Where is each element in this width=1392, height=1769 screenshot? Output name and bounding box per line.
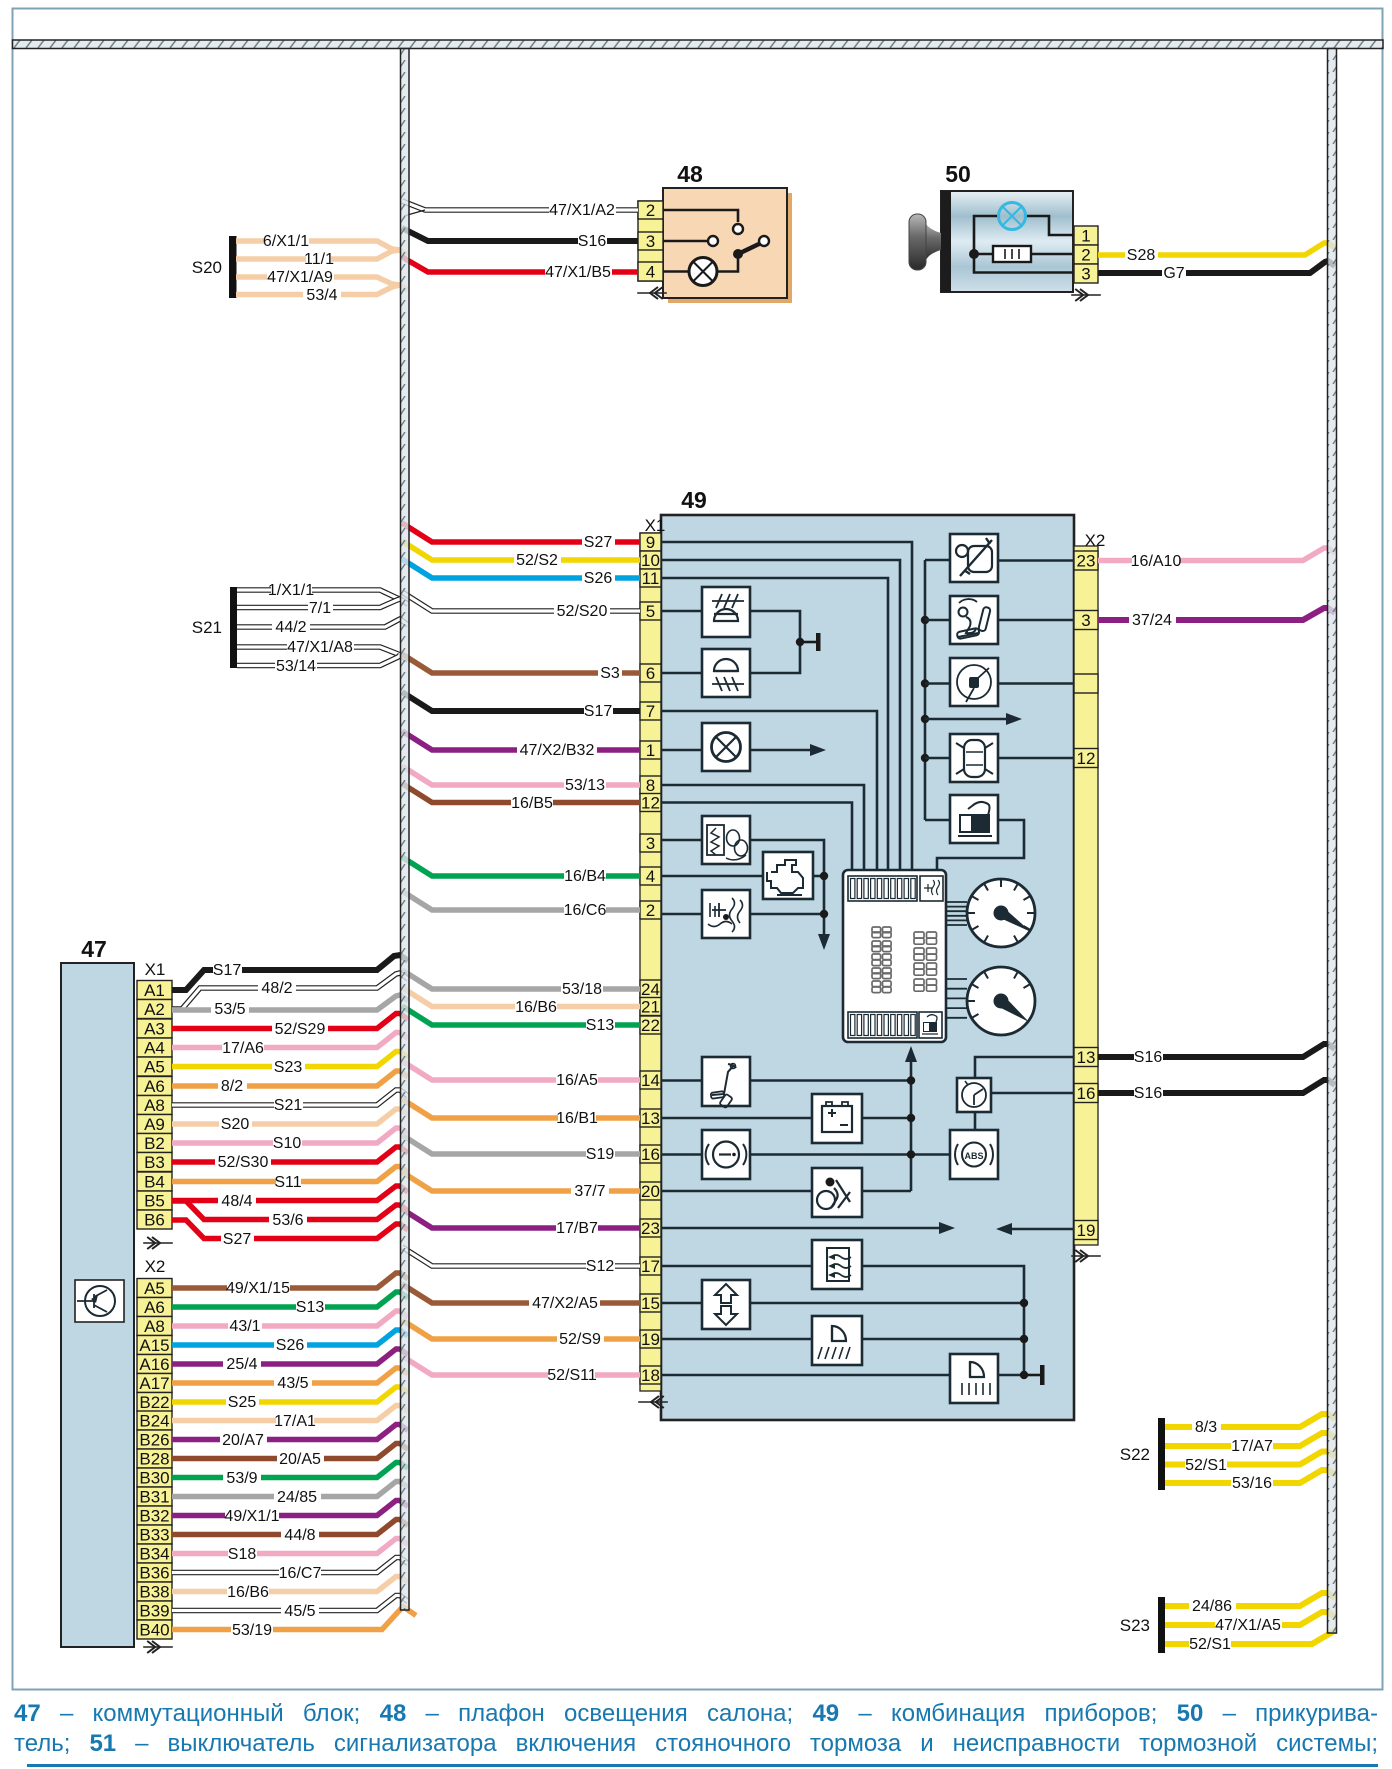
svg-text:53/18: 53/18 <box>562 981 602 998</box>
indicator: heated rear window <box>812 1240 862 1289</box>
svg-text:20/A5: 20/A5 <box>279 1451 321 1468</box>
trunk for indicator column <box>924 560 927 820</box>
wire 52/S1 (S23) <box>1165 1631 1337 1644</box>
48 internal lamp <box>689 258 717 286</box>
indicator: level updown <box>702 1280 750 1329</box>
svg-text:B3: B3 <box>144 1153 165 1172</box>
svg-text:16/B4: 16/B4 <box>564 868 606 885</box>
wire pin23 arrow <box>661 1227 941 1230</box>
svg-text:B2: B2 <box>144 1134 165 1153</box>
svg-text:S23: S23 <box>1120 1616 1150 1635</box>
svg-text:S16: S16 <box>1134 1085 1163 1102</box>
49 X1 pin 18 <box>640 1366 661 1384</box>
svg-text:3: 3 <box>1081 611 1090 630</box>
svg-text:4: 4 <box>646 263 655 282</box>
svg-text:49/X1/1: 49/X1/1 <box>224 1508 279 1525</box>
bus pin10 to display <box>661 560 900 870</box>
svg-text:11: 11 <box>642 569 660 588</box>
wire 43/5 (47) <box>172 1368 408 1383</box>
indicator: power steering <box>950 658 998 706</box>
49 X1 pin 17 <box>640 1257 661 1275</box>
49 X1 pin 2 <box>640 901 661 919</box>
49 connector X2 strip <box>1074 546 1098 1245</box>
svg-text:53/14: 53/14 <box>276 658 316 675</box>
indicator: heater plug <box>702 816 750 864</box>
svg-text:53/5: 53/5 <box>214 1001 245 1018</box>
wires display to speedometer <box>946 901 967 903</box>
svg-text:47/X1/A9: 47/X1/A9 <box>267 269 333 286</box>
svg-text:9: 9 <box>646 533 655 552</box>
wire 53/13 <box>402 766 640 785</box>
svg-text:52/S29: 52/S29 <box>275 1021 326 1038</box>
svg-text:S17: S17 <box>584 703 613 720</box>
wire lowbeam-trunk2 <box>862 1338 1024 1341</box>
svg-text:7/1: 7/1 <box>309 600 331 617</box>
svg-text:B26: B26 <box>139 1431 169 1450</box>
svg-text:B38: B38 <box>139 1583 169 1602</box>
svg-text:A5: A5 <box>144 1058 165 1077</box>
47 X2 pin A8 <box>137 1317 172 1336</box>
wire S17 <box>402 692 640 711</box>
47 X2 pin B31 <box>137 1487 172 1506</box>
svg-text:A8: A8 <box>144 1096 165 1115</box>
49 X1 pin 6 <box>640 664 661 682</box>
svg-text:S27: S27 <box>223 1231 252 1248</box>
svg-text:2: 2 <box>1081 246 1090 265</box>
svg-text:44/2: 44/2 <box>275 619 306 636</box>
wire S16 (X2-13) <box>1098 1044 1335 1057</box>
harness bar right vertical <box>1328 49 1337 1634</box>
svg-text:16/A5: 16/A5 <box>556 1072 598 1089</box>
svg-text:13: 13 <box>1077 1048 1096 1067</box>
wire S26 <box>402 559 640 578</box>
svg-text:7: 7 <box>646 702 655 721</box>
wire 44/2 <box>237 619 408 627</box>
wire G7 <box>1098 261 1335 273</box>
49 X2 pin 12 <box>1074 749 1098 768</box>
svg-text:A3: A3 <box>144 1020 165 1039</box>
49 X1 pin 9 <box>640 533 661 551</box>
wire trunk-airbag <box>921 616 929 624</box>
svg-text:52/S1: 52/S1 <box>1185 1457 1227 1474</box>
svg-text:23: 23 <box>641 1219 660 1238</box>
svg-text:B34: B34 <box>139 1545 169 1564</box>
wire pin19 <box>661 1338 812 1341</box>
svg-text:43/1: 43/1 <box>229 1318 260 1335</box>
svg-text:53/4: 53/4 <box>306 287 337 304</box>
display odometer digits <box>872 927 881 933</box>
svg-text:S3: S3 <box>600 665 620 682</box>
wire fuel loop to display <box>937 820 1024 870</box>
wire 53/9 (47) <box>172 1463 408 1478</box>
48 internal switch <box>663 210 738 222</box>
svg-text:ABS: ABS <box>964 1151 983 1161</box>
svg-text:A2: A2 <box>144 1000 165 1019</box>
47 X1 pin B2 <box>137 1134 172 1153</box>
svg-text:S16: S16 <box>1134 1049 1163 1066</box>
svg-text:S21: S21 <box>192 618 222 637</box>
svg-text:53/16: 53/16 <box>1232 1475 1272 1492</box>
indicator: airbag warning <box>812 1168 862 1217</box>
wire 52/S1 (S22) <box>1165 1452 1335 1465</box>
47 X2 pin A6 <box>137 1298 172 1317</box>
wire 53/18 <box>402 970 640 989</box>
trunk below display <box>910 1058 913 1191</box>
wire 49/X1/15 (47) <box>172 1273 408 1288</box>
splice S20 <box>229 236 237 298</box>
wire airbag to X2 pin3 <box>999 619 1074 622</box>
svg-text:52/S11: 52/S11 <box>547 1367 597 1384</box>
display bar graph top <box>848 876 917 901</box>
display unit <box>843 870 946 1042</box>
svg-text:12: 12 <box>641 794 660 813</box>
wire 53/14 <box>237 655 400 666</box>
svg-text:47/X2/A5: 47/X2/A5 <box>532 1295 598 1312</box>
svg-text:B28: B28 <box>139 1450 169 1469</box>
48 connector continuation <box>650 287 663 299</box>
svg-text:S28: S28 <box>1127 247 1156 264</box>
svg-text:10: 10 <box>641 551 660 570</box>
49 X2 pin 16 <box>1074 1084 1098 1103</box>
svg-text:1/X1/1: 1/X1/1 <box>268 582 314 599</box>
49 X1 pin 16 <box>640 1145 661 1163</box>
component 47 box <box>61 963 134 1647</box>
49 X1 pin 19 <box>640 1330 661 1348</box>
svg-text:19: 19 <box>641 1330 660 1349</box>
svg-text:X2: X2 <box>145 1257 166 1276</box>
47 X2 pin B28 <box>137 1449 172 1468</box>
wire pin17 <box>661 1265 812 1268</box>
svg-text:B36: B36 <box>139 1564 169 1583</box>
svg-text:S25: S25 <box>228 1394 257 1411</box>
wire 47/X1/A9 <box>236 277 408 290</box>
wire 47/X1/A5 (S23) <box>1165 1612 1335 1625</box>
svg-text:43/5: 43/5 <box>277 1375 308 1392</box>
49 X1 pin 20 <box>640 1182 661 1200</box>
svg-text:17/A6: 17/A6 <box>222 1040 264 1057</box>
wire 17/A7 (S22) <box>1165 1433 1335 1446</box>
wire 6/X1/1 <box>236 241 408 255</box>
wire S3 <box>402 654 640 673</box>
splice S22 <box>1158 1418 1165 1490</box>
harness bar center vertical <box>401 49 410 1611</box>
svg-text:S11: S11 <box>274 1174 301 1191</box>
49 X1 pin 5 <box>640 602 661 620</box>
wire 16/C6 <box>402 891 640 910</box>
wire S20 (47) <box>172 1109 408 1124</box>
49 X1 pin 23 <box>640 1219 661 1237</box>
svg-text:47/X1/B5: 47/X1/B5 <box>545 264 611 281</box>
display bar graph bottom <box>848 1012 917 1038</box>
svg-text:A4: A4 <box>144 1039 165 1058</box>
svg-text:53/6: 53/6 <box>272 1212 303 1229</box>
svg-text:B5: B5 <box>144 1192 165 1211</box>
wire 16/A5 <box>402 1061 640 1080</box>
50 internal resistor <box>969 249 979 259</box>
wire 24/86 (S23) <box>1165 1593 1335 1606</box>
wire engine to vertical <box>813 875 824 878</box>
svg-text:17: 17 <box>641 1257 660 1276</box>
wire X2 pin19 arrow <box>1010 1228 1074 1231</box>
wire S27 <box>402 523 640 542</box>
arrow from lamp icon <box>750 749 812 752</box>
wire 53/4 <box>236 285 400 295</box>
49 X1 pin 8 <box>640 776 661 794</box>
wire S27 (47) <box>172 1220 408 1239</box>
wire 53/5 (47) <box>172 995 408 1010</box>
svg-text:A5: A5 <box>144 1279 165 1298</box>
47 X2 pin A17 <box>137 1374 172 1393</box>
49 X1 pin 21 <box>640 998 661 1016</box>
svg-text:20/A7: 20/A7 <box>222 1432 264 1449</box>
svg-text:47/X1/A5: 47/X1/A5 <box>1215 1617 1281 1634</box>
svg-text:B22: B22 <box>139 1393 169 1412</box>
wire 11/1 <box>236 250 400 259</box>
svg-text:52/S30: 52/S30 <box>218 1154 269 1171</box>
47 X2 pin B26 <box>137 1430 172 1449</box>
svg-text:2: 2 <box>646 201 655 220</box>
svg-text:47: 47 <box>81 936 107 962</box>
wire 52/S29 (47) <box>172 1014 408 1029</box>
wire 37/24 <box>1098 608 1335 620</box>
wire 17/A1 (47) <box>172 1406 408 1421</box>
svg-text:50: 50 <box>945 161 971 187</box>
49 X1 pin 24 <box>640 980 661 998</box>
svg-text:16/B5: 16/B5 <box>511 795 553 812</box>
bus pin7 to display <box>661 711 877 870</box>
wire trunk-doors <box>921 754 929 762</box>
svg-text:B32: B32 <box>139 1507 169 1526</box>
svg-text:44/8: 44/8 <box>284 1527 315 1544</box>
svg-text:17/A7: 17/A7 <box>1231 1438 1273 1455</box>
svg-text:49/X1/15: 49/X1/15 <box>226 1280 290 1297</box>
svg-text:15: 15 <box>641 1294 660 1313</box>
wire 47/X1/B5 <box>402 257 638 272</box>
svg-text:B40: B40 <box>139 1621 169 1640</box>
wire 16/B1 <box>402 1099 640 1118</box>
svg-text:8/2: 8/2 <box>221 1078 243 1095</box>
49 X1 pin 14 <box>640 1071 661 1089</box>
svg-text:11/1: 11/1 <box>304 251 334 268</box>
wires display to tachometer <box>946 978 967 980</box>
svg-text:S20: S20 <box>192 258 222 277</box>
47 X1 pin A3 <box>137 1019 172 1038</box>
wire S17 (47) <box>172 955 408 990</box>
wire airbag2-trunk <box>862 1190 911 1193</box>
svg-text:S13: S13 <box>296 1299 325 1316</box>
svg-text:B24: B24 <box>139 1412 169 1431</box>
svg-text:16/C6: 16/C6 <box>564 902 607 919</box>
47 X1 pin A1 <box>137 981 172 1000</box>
indicator: fuel reserve <box>950 795 998 843</box>
indicator: side light lamp <box>702 723 750 771</box>
display coolant mini icon <box>920 876 943 901</box>
wire S12 <box>402 1247 640 1266</box>
svg-text:25/4: 25/4 <box>226 1356 257 1373</box>
wire S13 (47) <box>172 1292 408 1307</box>
wire 17/A6 (47) <box>172 1033 408 1048</box>
wire glow to vertical <box>750 840 824 938</box>
indicator: coolant temp <box>702 890 750 938</box>
wire brake-abs <box>750 1153 950 1156</box>
wire pin4 to engine <box>661 875 763 878</box>
svg-text:S26: S26 <box>584 570 613 587</box>
wire S13 <box>402 1006 640 1025</box>
wire 16/B5 <box>402 784 640 803</box>
indicator: low beam <box>812 1316 862 1365</box>
wire to X2 pin13 <box>975 1057 1074 1078</box>
wire 7/1 <box>237 599 400 608</box>
svg-text:12: 12 <box>1077 749 1096 768</box>
wire trunk-steering <box>921 679 929 687</box>
svg-text:A8: A8 <box>144 1317 165 1336</box>
indicator: handbrake <box>702 1057 750 1106</box>
svg-text:8: 8 <box>646 776 655 795</box>
svg-text:45/5: 45/5 <box>284 1603 315 1620</box>
47 X1 pin B6 <box>137 1210 172 1229</box>
ground node dot <box>796 638 804 646</box>
wire S16 to 48 <box>402 228 638 241</box>
wire pin3 to icon <box>661 839 702 842</box>
49 X1 pin 3 <box>640 834 661 852</box>
svg-text:17/A1: 17/A1 <box>274 1413 316 1430</box>
indicator: airbag <box>950 596 998 644</box>
svg-text:5: 5 <box>646 602 655 621</box>
wire 52/S30 (47) <box>172 1147 408 1162</box>
wire 17/B7 <box>402 1209 640 1228</box>
wire handbrake-trunk <box>750 1079 911 1082</box>
wire 48/2 <box>172 973 408 1009</box>
47 X2 pin A15 <box>137 1336 172 1355</box>
wire pin13 <box>661 1117 812 1120</box>
indicator: check engine <box>763 852 813 899</box>
svg-text:B30: B30 <box>139 1469 169 1488</box>
49 X2 pin 13 <box>1074 1048 1098 1067</box>
bus pin8 to display <box>661 785 864 870</box>
48 pin strip <box>638 201 663 281</box>
svg-text:37/24: 37/24 <box>1132 612 1172 629</box>
svg-text:S13: S13 <box>586 1017 615 1034</box>
svg-text:20: 20 <box>641 1182 660 1201</box>
49 X1 continuation <box>651 1396 664 1408</box>
svg-text:52/S20: 52/S20 <box>557 603 608 620</box>
49 X1 pin 11 <box>640 569 661 587</box>
arrow branch <box>921 715 929 723</box>
svg-text:S10: S10 <box>273 1135 302 1152</box>
47 X2 pin B30 <box>137 1468 172 1487</box>
svg-text:23: 23 <box>1077 552 1096 571</box>
wire S11 (47) <box>172 1167 408 1182</box>
svg-text:47/X1/A8: 47/X1/A8 <box>287 639 353 656</box>
svg-text:8/3: 8/3 <box>1195 1419 1217 1436</box>
svg-text:S26: S26 <box>276 1337 305 1354</box>
47 X2 pin B22 <box>137 1393 172 1412</box>
wire 1/X1/1 <box>237 590 408 604</box>
display clock digits <box>914 932 924 938</box>
wire coolant to vertical <box>750 913 824 916</box>
svg-text:13: 13 <box>641 1109 660 1128</box>
wire pin15 <box>661 1302 702 1305</box>
49 X2 pin <box>1074 674 1098 693</box>
wire 44/8 (47) <box>172 1520 408 1535</box>
47 X1 pin A8 <box>137 1096 172 1115</box>
wire battery-trunk <box>862 1117 911 1120</box>
svg-text:S16: S16 <box>578 233 607 250</box>
svg-text:S19: S19 <box>586 1146 615 1163</box>
wire 24/85 (47) <box>172 1482 408 1497</box>
svg-text:21: 21 <box>641 998 660 1017</box>
svg-text:53/19: 53/19 <box>232 1622 272 1639</box>
svg-text:17/B7: 17/B7 <box>556 1220 598 1237</box>
svg-text:3: 3 <box>1081 265 1090 284</box>
47 X1 pin B4 <box>137 1172 172 1191</box>
47 X2 pin B39 <box>137 1601 172 1620</box>
47 X1 pin A6 <box>137 1077 172 1096</box>
svg-text:S17: S17 <box>213 962 242 979</box>
wire 16/B4 <box>402 857 640 876</box>
wire pin14 <box>661 1079 702 1082</box>
svg-text:47/X2/B32: 47/X2/B32 <box>520 742 595 759</box>
wire S18 (47) <box>172 1539 408 1554</box>
bus pin9 to display <box>661 542 912 870</box>
wire S26 (47) <box>172 1330 408 1345</box>
svg-text:S21: S21 <box>274 1097 303 1114</box>
svg-text:52/S1: 52/S1 <box>1189 1636 1231 1653</box>
svg-text:B4: B4 <box>144 1173 165 1192</box>
ground at 49 bottom <box>1024 1374 1040 1377</box>
svg-text:2: 2 <box>646 901 655 920</box>
svg-text:S20: S20 <box>221 1116 250 1133</box>
svg-text:53/13: 53/13 <box>565 777 605 794</box>
indicator: seat belt <box>950 534 998 582</box>
50 knob <box>925 222 941 262</box>
wire doors to X2 pin12 <box>999 757 1074 760</box>
svg-text:6/X1/1: 6/X1/1 <box>263 233 309 250</box>
svg-text:1: 1 <box>646 741 655 760</box>
svg-text:S18: S18 <box>228 1546 257 1563</box>
svg-text:S27: S27 <box>584 534 613 551</box>
svg-text:A15: A15 <box>139 1336 169 1355</box>
wire S21 (47) <box>172 1090 408 1105</box>
wire 8/2 (47) <box>172 1071 408 1086</box>
50 pin strip <box>1074 226 1098 245</box>
svg-text:48: 48 <box>677 161 703 187</box>
wire S19 <box>402 1135 640 1154</box>
wire 53/6 <box>172 1201 408 1220</box>
svg-text:16/B1: 16/B1 <box>556 1110 598 1127</box>
svg-text:49: 49 <box>681 487 707 513</box>
wire gauge-abs <box>974 1112 977 1130</box>
wire icon to node <box>750 611 800 673</box>
svg-text:X1: X1 <box>145 960 166 979</box>
wire 52/S11 <box>402 1356 640 1375</box>
47 X2 pin B36 <box>137 1563 172 1582</box>
transistor icon <box>75 1280 124 1322</box>
wire pin6 to icon <box>661 672 702 675</box>
wire highbeam-ground <box>998 1374 1024 1377</box>
wire trunk-fuel <box>925 819 950 822</box>
svg-text:19: 19 <box>1077 1221 1096 1240</box>
wire 47/X2/A5 <box>402 1284 640 1303</box>
wire seatbelt to X2 pin23 <box>999 559 1074 562</box>
svg-text:A9: A9 <box>144 1115 165 1134</box>
47 X1 pin A5 <box>137 1057 172 1076</box>
49 X1 pin 13 <box>640 1109 661 1127</box>
display fuel mini icon <box>919 1012 942 1038</box>
wire 47/X1/A2 <box>402 201 638 210</box>
splice S23 <box>1158 1597 1165 1653</box>
svg-text:47/X1/A2: 47/X1/A2 <box>549 202 615 219</box>
